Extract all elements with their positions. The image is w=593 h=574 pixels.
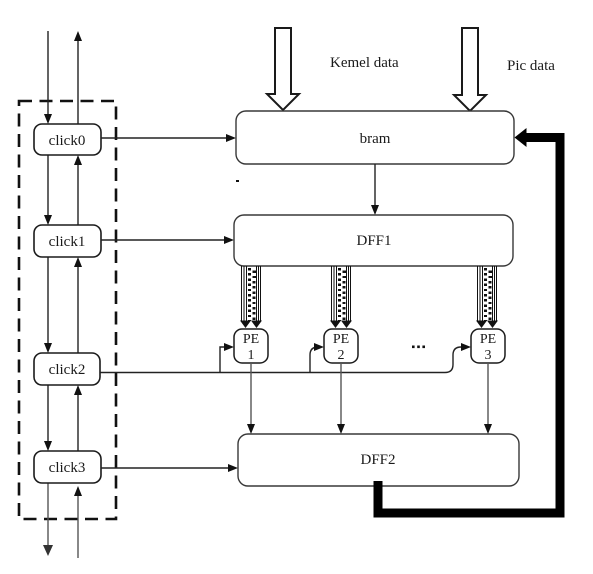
hollow arrow: Kernel data input [267,28,299,110]
wire: click2 to click1 up [77,264,79,353]
wire: click1 to click0 up [77,162,79,225]
svg-text:click3: click3 [49,460,86,476]
wire: PE1 to DFF2 [250,363,252,427]
wire: top output line from click0 [77,38,79,124]
svg-text:2: 2 [338,348,345,363]
DFF2 box [238,434,519,486]
PE1 box [234,329,268,363]
wire: bottom input line up into click3 [77,493,79,558]
click1 box [34,225,101,257]
wire: click3 to DFF2 [101,467,230,469]
wire: click3 to click2 up [77,392,79,451]
thick feedback arrowhead into bram [515,128,527,147]
svg-text:PE: PE [243,332,259,347]
wire: click1 to DFF1 [101,239,226,241]
wire: stub into PE1 [220,347,226,373]
wire: click2 bus line to PE row [100,347,463,373]
svg-text:click0: click0 [49,133,86,149]
bram box [236,111,514,164]
svg-text:Kemel data: Kemel data [330,55,399,71]
svg-text:bram: bram [360,131,391,147]
wire: click1 to click2 down [47,257,49,346]
wire: PE3 to DFF2 [487,363,489,427]
PE2 box [324,329,358,363]
wire: top input line into click0 [47,31,49,117]
hollow arrow: Pic data input [454,28,486,111]
stray dot [236,180,239,182]
svg-text:DFF2: DFF2 [360,452,395,468]
DFF1 box [234,215,513,266]
wire: bram to DFF1 [374,164,376,208]
svg-text:3: 3 [485,348,492,363]
PE3 box [471,329,505,363]
svg-text:1: 1 [248,348,255,363]
click2 box [34,353,100,385]
dashed enclosure box [19,101,116,519]
wire: stub into PE2 [310,347,318,373]
svg-text:click2: click2 [49,362,86,378]
svg-text:DFF1: DFF1 [356,233,391,249]
bus column 1 (DFF1 to PE1) [240,266,262,328]
wire: click0 to click1 down [47,155,49,218]
svg-text:click1: click1 [49,234,86,250]
click0 box [34,124,101,155]
click3 box [34,451,101,483]
wire: click2 to click3 down [47,385,49,444]
wire: click0 to bram [101,137,228,139]
thick feedback wire: DFF2 down [378,138,560,514]
wire: click3 bottom output down with arrow [47,483,49,547]
svg-text:Pic data: Pic data [507,58,555,74]
ellipsis dots [412,346,415,349]
bus column 3 (DFF1 to PE3) [476,266,498,328]
wire: PE2 to DFF2 [340,363,342,427]
bus column 2 (DFF1 to PE2) [330,266,352,328]
svg-text:PE: PE [480,332,496,347]
svg-text:PE: PE [333,332,349,347]
